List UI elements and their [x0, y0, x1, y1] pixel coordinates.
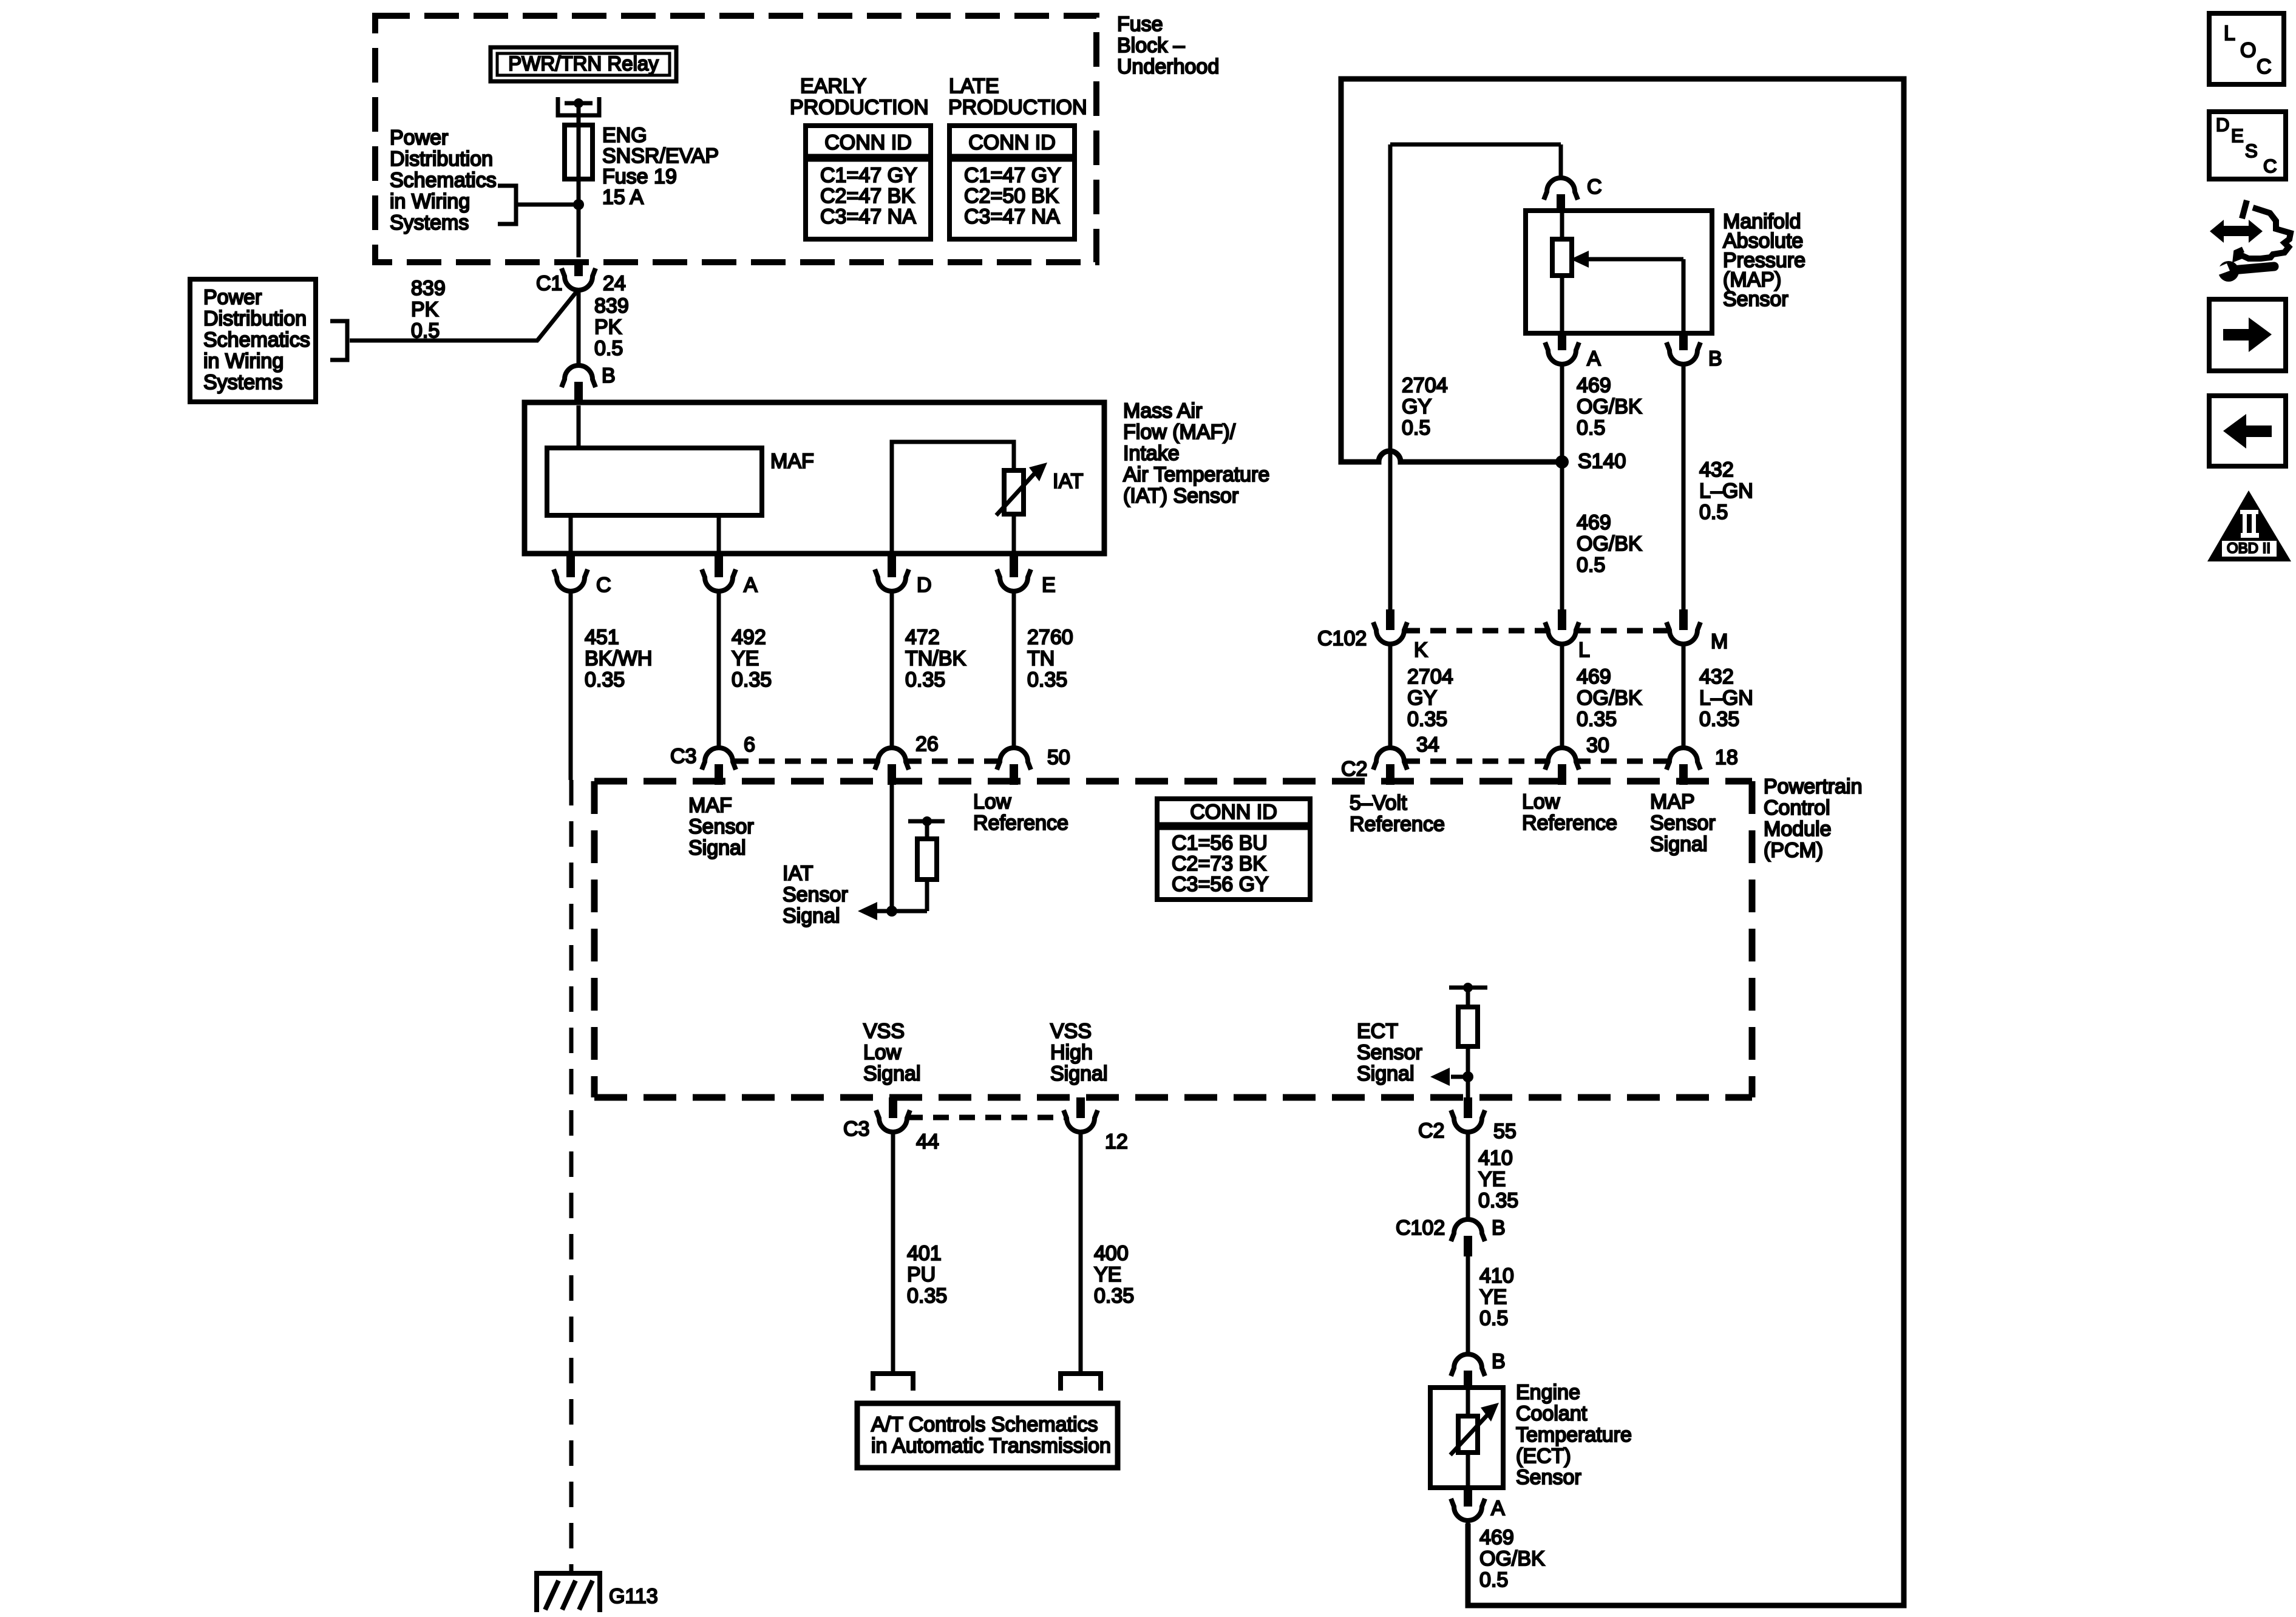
svg-text:432: 432	[1699, 665, 1734, 688]
svg-text:Sensor: Sensor	[783, 883, 848, 906]
svg-text:PRODUCTION: PRODUCTION	[790, 96, 929, 119]
svg-text:0.35: 0.35	[905, 668, 945, 691]
svg-text:12: 12	[1105, 1130, 1128, 1153]
svg-text:2760: 2760	[1027, 626, 1073, 649]
svg-text:CONN ID: CONN ID	[1190, 801, 1277, 824]
svg-text:K: K	[1414, 639, 1428, 662]
svg-text:VSS: VSS	[863, 1020, 905, 1043]
svg-text:GY: GY	[1407, 686, 1437, 710]
svg-text:L: L	[2224, 22, 2235, 45]
svg-text:Schematics: Schematics	[390, 169, 497, 192]
svg-text:(IAT) Sensor: (IAT) Sensor	[1123, 484, 1238, 507]
svg-text:Intake: Intake	[1123, 442, 1180, 465]
svg-text:C3=56 GY: C3=56 GY	[1172, 873, 1269, 896]
svg-text:Sensor: Sensor	[688, 815, 754, 838]
svg-text:B: B	[1492, 1350, 1506, 1373]
svg-text:Systems: Systems	[390, 211, 469, 234]
svg-text:0.35: 0.35	[1407, 708, 1447, 731]
svg-text:A: A	[1491, 1497, 1505, 1520]
svg-text:C1=47 GY: C1=47 GY	[820, 164, 917, 187]
svg-text:0.35: 0.35	[1094, 1284, 1134, 1307]
svg-text:CONN ID: CONN ID	[824, 131, 912, 154]
svg-text:15 A: 15 A	[602, 186, 644, 209]
svg-text:OBD II: OBD II	[2227, 540, 2271, 557]
svg-text:L–GN: L–GN	[1699, 686, 1753, 710]
svg-text:PU: PU	[907, 1263, 936, 1286]
svg-text:400: 400	[1094, 1242, 1129, 1265]
svg-text:B: B	[602, 364, 616, 387]
svg-text:410: 410	[1478, 1147, 1513, 1170]
svg-text:C3: C3	[843, 1117, 869, 1141]
svg-text:YE: YE	[732, 647, 759, 670]
svg-text:M: M	[1711, 630, 1728, 653]
svg-text:18: 18	[1715, 746, 1738, 769]
svg-text:0.35: 0.35	[1478, 1189, 1518, 1212]
svg-text:C2=47 BK: C2=47 BK	[820, 185, 915, 208]
svg-text:Power: Power	[390, 126, 448, 149]
svg-text:MAF: MAF	[688, 794, 732, 817]
svg-text:Powertrain: Powertrain	[1764, 775, 1863, 798]
svg-text:34: 34	[1416, 733, 1439, 756]
svg-text:C1=56 BU: C1=56 BU	[1172, 832, 1268, 855]
svg-text:24: 24	[603, 272, 626, 295]
svg-text:30: 30	[1586, 734, 1609, 757]
svg-text:G113: G113	[609, 1585, 658, 1608]
svg-text:469: 469	[1577, 374, 1611, 397]
svg-text:Reference: Reference	[1350, 813, 1445, 836]
svg-text:410: 410	[1479, 1264, 1514, 1287]
svg-text:O: O	[2240, 39, 2256, 62]
svg-text:Engine: Engine	[1516, 1381, 1580, 1404]
svg-text:EARLY: EARLY	[800, 75, 866, 98]
svg-text:in Wiring: in Wiring	[203, 350, 284, 373]
svg-text:ENG: ENG	[602, 124, 647, 147]
svg-text:44: 44	[916, 1130, 939, 1153]
svg-text:Signal: Signal	[863, 1062, 921, 1085]
svg-text:50: 50	[1047, 746, 1070, 769]
svg-text:C3=47 NA: C3=47 NA	[820, 205, 916, 228]
svg-text:0.35: 0.35	[1699, 708, 1739, 731]
svg-text:C1: C1	[536, 272, 562, 295]
svg-text:LATE: LATE	[949, 75, 999, 98]
svg-text:C: C	[596, 574, 611, 597]
svg-text:A: A	[744, 574, 758, 597]
svg-text:GY: GY	[1402, 395, 1432, 418]
svg-text:Power: Power	[203, 286, 262, 309]
svg-text:C1=47 GY: C1=47 GY	[964, 164, 1061, 187]
svg-text:Low: Low	[973, 790, 1011, 813]
svg-text:472: 472	[905, 626, 940, 649]
svg-text:L–GN: L–GN	[1699, 480, 1753, 503]
svg-text:0.5: 0.5	[1402, 416, 1430, 439]
svg-text:BK/WH: BK/WH	[585, 647, 652, 670]
svg-text:VSS: VSS	[1050, 1020, 1092, 1043]
svg-text:C2: C2	[1341, 758, 1367, 781]
svg-text:C2=50 BK: C2=50 BK	[964, 185, 1059, 208]
svg-text:OG/BK: OG/BK	[1479, 1547, 1545, 1570]
svg-text:E: E	[2231, 125, 2244, 146]
svg-text:Signal: Signal	[688, 836, 746, 859]
svg-text:Sensor: Sensor	[1357, 1041, 1422, 1064]
svg-text:High: High	[1050, 1041, 1093, 1064]
svg-text:451: 451	[585, 626, 619, 649]
svg-text:Fuse: Fuse	[1117, 13, 1163, 36]
svg-text:TN: TN	[1027, 647, 1055, 670]
svg-text:2704: 2704	[1402, 374, 1448, 397]
svg-text:YE: YE	[1479, 1286, 1507, 1309]
svg-text:Signal: Signal	[1357, 1062, 1415, 1085]
svg-text:in Wiring: in Wiring	[390, 190, 470, 213]
svg-text:Temperature: Temperature	[1516, 1423, 1632, 1446]
svg-text:B: B	[1708, 347, 1722, 370]
svg-text:A: A	[1587, 347, 1601, 370]
svg-text:(ECT): (ECT)	[1516, 1445, 1571, 1468]
svg-text:Low: Low	[863, 1041, 902, 1064]
svg-text:0.35: 0.35	[1027, 668, 1067, 691]
svg-text:YE: YE	[1478, 1168, 1506, 1191]
svg-text:IAT: IAT	[1053, 470, 1083, 493]
svg-text:MAF: MAF	[770, 450, 814, 473]
svg-text:B: B	[1492, 1216, 1506, 1239]
svg-text:C2: C2	[1418, 1119, 1444, 1142]
svg-text:D: D	[917, 574, 932, 597]
svg-text:C: C	[1587, 175, 1602, 198]
svg-text:469: 469	[1577, 511, 1611, 534]
svg-text:Flow (MAF)/: Flow (MAF)/	[1123, 421, 1236, 444]
svg-text:401: 401	[907, 1242, 942, 1265]
svg-text:ECT: ECT	[1357, 1020, 1398, 1043]
svg-text:Block –: Block –	[1117, 34, 1185, 57]
svg-text:469: 469	[1479, 1526, 1514, 1549]
svg-text:in Automatic Transmission: in Automatic Transmission	[871, 1434, 1111, 1457]
svg-text:Sensor: Sensor	[1650, 812, 1716, 835]
svg-text:Low: Low	[1522, 790, 1560, 813]
svg-text:839: 839	[594, 294, 629, 317]
svg-text:C102: C102	[1317, 627, 1367, 650]
svg-text:A/T Controls Schematics: A/T Controls Schematics	[871, 1413, 1098, 1436]
svg-text:432: 432	[1699, 458, 1734, 481]
svg-text:0.35: 0.35	[907, 1284, 947, 1307]
svg-text:0.5: 0.5	[1577, 554, 1605, 577]
svg-text:55: 55	[1493, 1120, 1517, 1143]
svg-text:6: 6	[744, 733, 755, 756]
svg-text:0.5: 0.5	[594, 337, 623, 360]
svg-text:D: D	[2216, 114, 2229, 135]
svg-text:Signal: Signal	[1050, 1062, 1108, 1085]
svg-text:Distribution: Distribution	[203, 307, 307, 330]
svg-text:SNSR/EVAP: SNSR/EVAP	[602, 144, 719, 168]
svg-text:Reference: Reference	[973, 812, 1068, 835]
svg-text:TN/BK: TN/BK	[905, 647, 966, 670]
svg-text:PRODUCTION: PRODUCTION	[948, 96, 1087, 119]
svg-text:C102: C102	[1396, 1216, 1445, 1239]
svg-text:OG/BK: OG/BK	[1577, 532, 1642, 555]
svg-text:C2=73 BK: C2=73 BK	[1172, 852, 1266, 875]
svg-text:Fuse 19: Fuse 19	[602, 165, 677, 188]
svg-text:S: S	[2245, 140, 2258, 161]
svg-text:E: E	[1042, 574, 1056, 597]
svg-text:0.5: 0.5	[1479, 1568, 1508, 1592]
svg-text:0.5: 0.5	[1577, 416, 1605, 439]
svg-text:OG/BK: OG/BK	[1577, 686, 1642, 710]
svg-text:L: L	[1578, 639, 1590, 662]
svg-text:MAP: MAP	[1650, 790, 1695, 813]
svg-text:Module: Module	[1764, 818, 1832, 841]
svg-text:PWR/TRN Relay: PWR/TRN Relay	[508, 52, 659, 75]
svg-text:C: C	[2263, 155, 2277, 177]
svg-text:YE: YE	[1094, 1263, 1121, 1286]
svg-text:Control: Control	[1764, 796, 1830, 819]
svg-text:CONN ID: CONN ID	[968, 131, 1056, 154]
svg-text:0.35: 0.35	[1577, 708, 1617, 731]
svg-text:Distribution: Distribution	[390, 147, 493, 171]
svg-text:0.5: 0.5	[1479, 1307, 1508, 1330]
svg-text:OG/BK: OG/BK	[1577, 395, 1642, 418]
svg-text:839: 839	[411, 277, 446, 300]
svg-text:PK: PK	[411, 298, 439, 321]
svg-text:Reference: Reference	[1522, 812, 1617, 835]
svg-text:2704: 2704	[1407, 665, 1453, 688]
svg-text:Sensor: Sensor	[1516, 1466, 1581, 1489]
svg-text:Mass Air: Mass Air	[1123, 399, 1202, 422]
svg-text:Underhood: Underhood	[1117, 55, 1219, 78]
svg-text:Signal: Signal	[783, 904, 840, 927]
svg-text:0.5: 0.5	[1699, 501, 1728, 524]
svg-text:PK: PK	[594, 316, 622, 339]
svg-text:26: 26	[915, 733, 939, 756]
svg-text:0.35: 0.35	[732, 668, 772, 691]
svg-text:0.35: 0.35	[585, 668, 625, 691]
svg-text:(PCM): (PCM)	[1764, 839, 1823, 862]
svg-text:C: C	[2257, 55, 2272, 78]
svg-text:IAT: IAT	[783, 862, 813, 885]
svg-text:Air Temperature: Air Temperature	[1123, 463, 1269, 486]
svg-text:C3: C3	[670, 745, 696, 768]
svg-text:Coolant: Coolant	[1516, 1402, 1588, 1425]
svg-text:C3=47 NA: C3=47 NA	[964, 205, 1060, 228]
svg-text:Systems: Systems	[203, 371, 282, 394]
svg-text:469: 469	[1577, 665, 1611, 688]
svg-text:Schematics: Schematics	[203, 328, 310, 351]
svg-text:S140: S140	[1578, 450, 1626, 473]
svg-text:5–Volt: 5–Volt	[1350, 792, 1407, 815]
svg-text:492: 492	[732, 626, 766, 649]
svg-text:Signal: Signal	[1650, 833, 1708, 856]
svg-text:Sensor: Sensor	[1723, 288, 1788, 311]
